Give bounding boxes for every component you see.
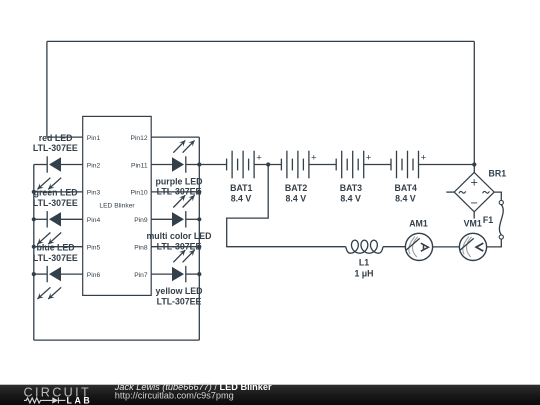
svg-text:Pin8: Pin8 (134, 245, 148, 252)
LED D4 purple: triangle (172, 157, 184, 171)
LED D6 yellow: cathode wire (186, 273, 200, 275)
svg-text:BAT4: BAT4 (395, 183, 417, 193)
LED D1 red: anode wire (61, 164, 83, 166)
svg-text:LTL-307EE: LTL-307EE (157, 296, 202, 306)
BR1 left AC tilde mark (459, 191, 466, 193)
wire BAT2 to BAT3 (309, 164, 336, 166)
LED D6 yellow: anode wire (151, 273, 172, 275)
svg-text:Pin12: Pin12 (130, 135, 147, 142)
svg-text:BAT2: BAT2 (285, 183, 307, 193)
node battery-bridge junction (472, 162, 476, 166)
svg-text:Pin9: Pin9 (134, 217, 148, 224)
svg-text:LAB: LAB (67, 395, 93, 405)
svg-text:blue LED: blue LED (37, 243, 75, 253)
svg-text:+: + (421, 153, 427, 164)
wire battery node to BR1 top (473, 165, 475, 173)
meter AM1 body circle (405, 233, 432, 260)
svg-text:F1: F1 (483, 215, 493, 225)
LED D6 yellow: emission arrows (173, 250, 194, 262)
wire fuse top to BR1 right (494, 192, 501, 200)
fuse F1 wavy element (499, 205, 503, 235)
LED D5 multi color: triangle (172, 212, 184, 226)
LED D2 green: emission arrows (37, 233, 61, 245)
wire Pin1 to riser (47, 136, 83, 138)
svg-text:Pin2: Pin2 (87, 162, 101, 169)
svg-text:BAT3: BAT3 (340, 183, 362, 193)
wire Pin5 to left rail (34, 246, 83, 248)
svg-text:Pin1: Pin1 (87, 135, 101, 142)
LED D4 purple: emission arrows (173, 140, 194, 152)
LED D5 multi color: anode wire (151, 218, 172, 220)
svg-text:Pin11: Pin11 (131, 162, 148, 169)
LED D4 purple: cathode bar (185, 156, 187, 172)
LED D2 green: anode wire (61, 218, 83, 220)
LED D3 blue: cathode bar (46, 266, 48, 282)
svg-text:Pin7: Pin7 (134, 272, 148, 279)
LED D5 multi color: cathode bar (185, 211, 187, 227)
CircuitLab logo diode triangle (52, 397, 58, 403)
svg-text:BAT1: BAT1 (230, 183, 252, 193)
node right rail Pin7 junction (197, 272, 201, 276)
wire right vertical rail (198, 137, 200, 340)
inductor L1 coil (346, 240, 383, 253)
wire Pin10 to right rail (151, 191, 199, 193)
svg-text:purple LED: purple LED (156, 176, 203, 186)
svg-text:BR1: BR1 (489, 168, 507, 178)
LED D3 blue: cathode wire (34, 273, 47, 275)
battery BAT1: plates (227, 151, 255, 179)
LED D2 green: cathode bar (46, 211, 48, 227)
meter VM1 gauge arcs (463, 237, 472, 258)
svg-text:8.4 V: 8.4 V (231, 194, 252, 204)
wire BAT1 to BAT2 (254, 164, 281, 166)
wire bottom rail (34, 339, 200, 341)
ammeter letter A rotated (421, 243, 429, 251)
node right rail Pin10 junction (197, 190, 201, 194)
meter VM1 needle (460, 238, 474, 250)
LED D1 red: cathode wire (34, 164, 47, 166)
svg-text:+: + (311, 153, 317, 164)
wire left riser from top rail to Pin1 (46, 41, 48, 137)
svg-text:−: − (471, 196, 478, 210)
svg-text:L1: L1 (359, 257, 369, 267)
svg-text:LTL-307EE: LTL-307EE (157, 242, 202, 252)
battery BAT4: plates (391, 151, 419, 179)
wire VM1 to fuse corner (487, 239, 502, 247)
svg-text:8.4 V: 8.4 V (340, 194, 361, 204)
svg-text:Pin6: Pin6 (87, 272, 101, 279)
svg-text:green LED: green LED (34, 188, 78, 198)
BR1 left stub (446, 191, 454, 193)
svg-text:yellow LED: yellow LED (156, 286, 203, 296)
meter AM1 needle (406, 238, 420, 250)
wire jog from BAT1 node down to inductor row (227, 165, 346, 247)
node right rail Pin9 junction (197, 217, 201, 221)
LED D2 green: triangle (49, 212, 61, 226)
svg-text:Pin10: Pin10 (130, 190, 147, 197)
fuse F1 bottom terminal (499, 235, 503, 239)
svg-text:8.4 V: 8.4 V (395, 194, 416, 204)
wire Pin12 to right rail (151, 136, 199, 138)
svg-text:Pin5: Pin5 (87, 245, 101, 252)
svg-text:LTL-307EE: LTL-307EE (33, 198, 78, 208)
svg-text:+: + (471, 176, 478, 190)
svg-text:LTL-307EE: LTL-307EE (33, 143, 78, 153)
battery BAT2: plates (281, 151, 309, 179)
LED D1 red: triangle (49, 157, 61, 171)
LED D5 multi color: emission arrows (173, 195, 194, 207)
svg-text:red LED: red LED (39, 133, 73, 143)
svg-text:+: + (366, 153, 372, 164)
svg-text:AM1: AM1 (409, 219, 428, 229)
node left rail Pin5 junction (32, 245, 36, 249)
node right rail Pin8 junction (197, 245, 201, 249)
LED D3 blue: triangle (49, 267, 61, 281)
LED D1 red: emission arrows (37, 178, 61, 190)
LED D4 purple: cathode wire (186, 164, 200, 166)
LED D6 yellow: cathode bar (185, 266, 187, 282)
svg-text:Pin4: Pin4 (87, 217, 101, 224)
wire left vertical rail (33, 165, 35, 341)
fuse F1 top terminal (499, 200, 503, 204)
bridge rectifier BR1 diamond (454, 172, 494, 211)
IC U1 LED Blinker box (83, 116, 152, 295)
wire top rail (47, 40, 474, 42)
node right rail Pin11 junction (197, 162, 201, 166)
svg-text:multi color LED: multi color LED (146, 231, 211, 241)
BR1 right AC tilde mark (483, 191, 490, 193)
wire Pin3 to left rail (34, 191, 83, 193)
LED D1 red: cathode bar (46, 156, 48, 172)
wire AM1 to VM1 (433, 246, 460, 248)
LED D5 multi color: cathode wire (186, 218, 200, 220)
LED D3 blue: anode wire (61, 273, 83, 275)
node left rail Pin3 junction (32, 190, 36, 194)
svg-text:http://circuitlab.com/c9s7pmg: http://circuitlab.com/c9s7pmg (115, 391, 234, 401)
battery BAT3: plates (336, 151, 364, 179)
LED D6 yellow: triangle (172, 267, 184, 281)
CircuitLab logo resistor zigzag (24, 397, 65, 403)
svg-text:Pin3: Pin3 (87, 190, 101, 197)
BR1 bottom stub (473, 212, 475, 219)
meter AM1 gauge arcs (409, 237, 418, 258)
wire Pin8 to right rail (151, 246, 199, 248)
wire right rail to BAT1 (199, 164, 226, 166)
svg-text:+: + (256, 153, 262, 164)
LED D2 green: cathode wire (34, 218, 47, 220)
svg-text:LTL-307EE: LTL-307EE (33, 253, 78, 263)
svg-text:VM1: VM1 (464, 219, 482, 229)
node BAT1 output junction (266, 162, 270, 166)
svg-text:LTL-307EE: LTL-307EE (157, 187, 202, 197)
svg-text:1 μH: 1 μH (354, 268, 373, 278)
voltmeter letter V rotated (476, 243, 483, 251)
wire BAT4 to junction (419, 164, 475, 166)
wire BAT3 to BAT4 (364, 164, 391, 166)
LED D4 purple: anode wire (151, 164, 172, 166)
LED D3 blue: emission arrows (37, 287, 61, 299)
svg-text:LED Blinker: LED Blinker (99, 203, 135, 210)
wire inductor to AM1 (383, 246, 405, 248)
wire right riser from top rail to battery node (473, 41, 475, 164)
node left rail Pin6 junction (32, 272, 36, 276)
svg-text:8.4 V: 8.4 V (286, 194, 307, 204)
node left rail Pin4 junction (32, 217, 36, 221)
meter VM1 body circle (459, 233, 486, 260)
